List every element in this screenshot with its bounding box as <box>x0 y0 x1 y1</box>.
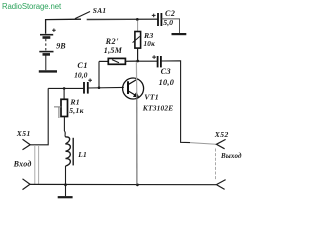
capacitor C2 <box>152 13 162 26</box>
wire input node to C1 <box>48 87 84 89</box>
node base junction <box>98 86 101 89</box>
svg-text:10,0: 10,0 <box>74 70 87 79</box>
node collector junction <box>136 60 139 63</box>
wire top rail right <box>87 18 158 20</box>
svg-text:Х52: Х52 <box>214 130 229 139</box>
svg-text:КТ3102Е: КТ3102Е <box>142 104 174 113</box>
svg-text:Выход: Выход <box>220 152 242 160</box>
wire R2' left lead down to base node <box>98 61 100 87</box>
wire input riser <box>30 88 48 144</box>
svg-text:RadioStorage.net: RadioStorage.net <box>2 2 62 11</box>
node L1 bottom <box>64 183 67 186</box>
resistor R2' <box>99 58 138 64</box>
wire C3 to output <box>161 61 190 143</box>
resistor R1 <box>54 88 68 131</box>
wire faint to X52 pin <box>190 143 216 145</box>
svg-text:10к: 10к <box>144 40 156 48</box>
wire C2 to ground <box>161 19 179 33</box>
svg-text:Вход: Вход <box>13 160 32 169</box>
svg-text:1,5М: 1,5М <box>104 46 123 55</box>
svg-text:R3: R3 <box>143 31 154 40</box>
inductor L1 <box>64 131 73 185</box>
wire bottom rail <box>30 183 216 185</box>
capacitor C1 <box>84 79 92 94</box>
svg-text:R2': R2' <box>105 37 120 46</box>
svg-text:C3: C3 <box>161 67 172 76</box>
transistor VT1 <box>123 62 144 184</box>
svg-text:9В: 9В <box>56 42 66 51</box>
svg-text:L1: L1 <box>77 150 87 159</box>
wire collector node to C3 <box>138 60 158 62</box>
node junction R3 top <box>136 18 139 21</box>
resistor R3 <box>133 21 141 62</box>
svg-text:C2: C2 <box>165 9 175 18</box>
capacitor C3 <box>152 55 161 67</box>
svg-text:5,0: 5,0 <box>163 18 173 27</box>
node emitter bottom <box>136 183 139 186</box>
svg-text:SA1: SA1 <box>93 6 107 15</box>
svg-text:C1: C1 <box>77 61 88 70</box>
svg-text:10,0: 10,0 <box>159 78 175 87</box>
svg-text:VT1: VT1 <box>144 93 159 102</box>
svg-text:5,1к: 5,1к <box>69 106 84 115</box>
switch SA1 <box>75 12 90 19</box>
ground C2 <box>172 33 187 35</box>
node R1 top junction <box>63 87 66 90</box>
ground bottom <box>58 185 73 197</box>
battery GB1 9V <box>39 29 57 72</box>
svg-text:Х51: Х51 <box>16 129 31 138</box>
wire C1 to base <box>88 86 124 89</box>
wire top rail left <box>46 19 81 34</box>
connector X51 <box>23 139 39 189</box>
connector X52 <box>216 139 226 189</box>
